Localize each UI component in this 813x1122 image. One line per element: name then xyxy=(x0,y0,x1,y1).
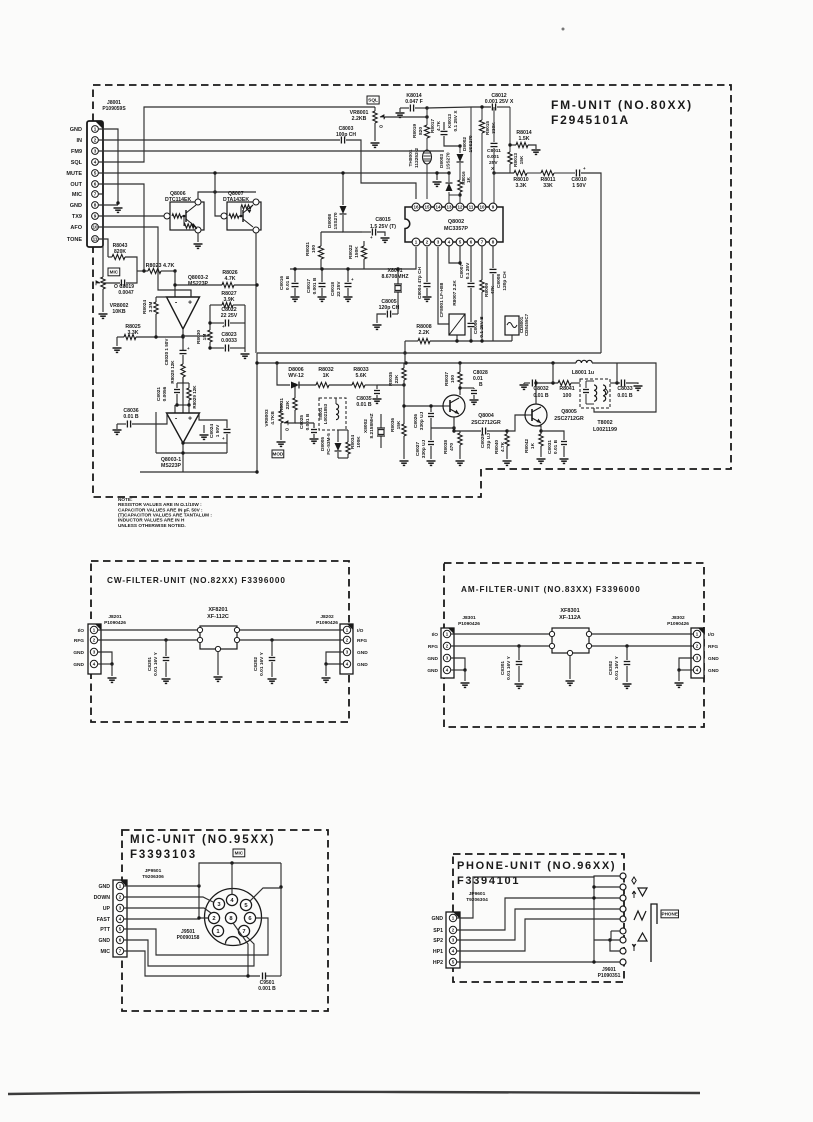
svg-text:4: 4 xyxy=(94,160,97,165)
svg-text:MIC-UNIT (NO.95XX): MIC-UNIT (NO.95XX) xyxy=(130,834,275,846)
wire osc row xyxy=(524,382,530,384)
svg-text:X8002: X8002 xyxy=(363,419,369,433)
svg-text:GND: GND xyxy=(70,203,82,209)
svg-text:MIC: MIC xyxy=(110,270,119,275)
J9501 pin 4 xyxy=(226,894,237,905)
svg-text:0.01 B: 0.01 B xyxy=(123,414,139,420)
J8301 pin 3 GND xyxy=(443,654,450,661)
jack body xyxy=(651,904,657,962)
svg-text:2.2K: 2.2K xyxy=(419,330,430,336)
transformer T8001 xyxy=(319,398,346,430)
svg-text:TONE: TONE xyxy=(67,237,83,243)
J8202 pin 1 I/O xyxy=(343,626,350,633)
wire R8023 node down xyxy=(174,271,176,297)
ground C8017 xyxy=(318,296,327,298)
ground VR8003 xyxy=(277,441,286,443)
wire J9501 pin8 down xyxy=(233,923,248,976)
svg-text:820K: 820K xyxy=(114,249,126,255)
wire AM RFG left xyxy=(451,645,549,647)
wire MIC FAST xyxy=(124,918,199,920)
svg-text:O: O xyxy=(285,427,289,432)
svg-text:R8040: R8040 xyxy=(494,440,500,454)
svg-text:I/O: I/O xyxy=(432,632,439,638)
svg-text:P1090351: P1090351 xyxy=(598,973,621,979)
ground C8035 xyxy=(373,398,382,400)
ground AM left xyxy=(461,682,470,684)
Q8002 pin 2 xyxy=(423,238,431,246)
svg-text:100K: 100K xyxy=(356,436,362,448)
wire J9501 pin4 riser xyxy=(231,863,233,895)
wire TX9 pin9 xyxy=(98,215,167,217)
ground C8031 xyxy=(560,458,569,460)
wire Q8005 collector xyxy=(535,383,537,404)
svg-text:RFG: RFG xyxy=(357,638,367,644)
svg-text:XF-112C: XF-112C xyxy=(207,614,229,620)
svg-text:7: 7 xyxy=(242,929,245,935)
svg-text:D8002: D8002 xyxy=(462,137,468,151)
transistor Q8006 xyxy=(170,202,204,230)
svg-text:2SC2712GR: 2SC2712GR xyxy=(554,416,584,422)
svg-text:Q8002: Q8002 xyxy=(448,219,464,225)
wire MIC GND loop xyxy=(124,886,208,918)
svg-text:J8201: J8201 xyxy=(108,614,122,620)
svg-text:0.1 25V X: 0.1 25V X xyxy=(453,110,459,132)
wire bus lower xyxy=(257,362,576,364)
wire opamp1 out node xyxy=(181,334,184,337)
svg-text:MIC: MIC xyxy=(72,192,82,198)
svg-text:OUT: OUT xyxy=(70,182,82,188)
svg-text:1.5 25V (T): 1.5 25V (T) xyxy=(370,224,396,230)
transistor Q8007 xyxy=(227,202,261,230)
svg-text:R8013: R8013 xyxy=(513,153,519,167)
J8301 pin 2 RFG xyxy=(443,642,450,649)
wire AFO pin10 xyxy=(98,227,191,297)
wire audio bottom xyxy=(140,471,257,473)
svg-text:I/O: I/O xyxy=(78,628,85,634)
svg-text:10KB: 10KB xyxy=(112,309,126,315)
wire CF8001 to bus xyxy=(456,335,458,341)
svg-text:0.0056: 0.0056 xyxy=(162,386,168,401)
wire C8003 to pin16 xyxy=(346,140,416,199)
svg-text:C8024: C8024 xyxy=(209,424,215,438)
filter XF8301 xyxy=(552,628,589,653)
svg-text:L0021853: L0021853 xyxy=(323,403,328,424)
svg-text:C8031: C8031 xyxy=(547,440,553,454)
wire MIC GND6 to pin7 xyxy=(124,936,254,966)
wire T8002 right xyxy=(610,382,620,384)
ground R8014 xyxy=(532,149,541,151)
svg-text:8: 8 xyxy=(94,203,97,208)
svg-text:TH8001: TH8001 xyxy=(408,149,414,166)
svg-text:RFG: RFG xyxy=(708,644,718,650)
svg-text:1: 1 xyxy=(94,127,97,132)
svg-text:33K: 33K xyxy=(543,183,553,189)
svg-text:MS223P: MS223P xyxy=(188,281,208,287)
J8302 pin 2 RFG xyxy=(693,642,700,649)
svg-text:C8021: C8021 xyxy=(156,387,162,401)
svg-text:100p CH: 100p CH xyxy=(336,132,356,138)
J9501 pin 8 xyxy=(225,912,236,923)
svg-text:T9206306: T9206306 xyxy=(142,874,164,880)
label SQL xyxy=(367,96,379,104)
J9501 pin 3 xyxy=(213,898,224,909)
wire opamp1 + up xyxy=(190,290,192,297)
svg-text:0.001 B: 0.001 B xyxy=(312,277,318,294)
wire AM I/O left xyxy=(451,633,549,635)
svg-text:0.001: 0.001 xyxy=(487,154,499,160)
svg-text:GND: GND xyxy=(98,884,110,890)
Q8002 pin 3 xyxy=(434,238,442,246)
svg-text:C8033: C8033 xyxy=(617,386,632,392)
svg-text:R8041: R8041 xyxy=(559,386,574,392)
label MIC boxed xyxy=(233,849,245,857)
svg-text:AM-FILTER-UNIT (NO.83XX) F33: AM-FILTER-UNIT (NO.83XX) F3396000 xyxy=(461,585,641,594)
ground C8016 xyxy=(291,296,300,298)
ground R8025 xyxy=(113,347,122,349)
ground opamp2 xyxy=(203,425,205,433)
wire AM gnd pins right xyxy=(679,658,694,670)
svg-text:C8016: C8016 xyxy=(279,276,285,290)
Q8002 pin 9 xyxy=(489,203,497,211)
ground C8027 xyxy=(427,460,436,462)
wire GND pin1 to ground xyxy=(98,129,118,203)
ground C8201 xyxy=(162,678,171,680)
svg-text:C8004 47p CH: C8004 47p CH xyxy=(417,266,423,299)
ground VR8002 xyxy=(99,313,108,315)
svg-text:R8034: R8034 xyxy=(350,435,356,449)
svg-text:0.001 B: 0.001 B xyxy=(305,413,311,430)
svg-text:100: 100 xyxy=(450,375,456,383)
wire feedback right xyxy=(244,305,246,348)
svg-text:120p CH: 120p CH xyxy=(502,271,508,291)
svg-text:1SS270: 1SS270 xyxy=(446,152,452,169)
wire pin4 down xyxy=(449,246,460,263)
svg-text:0.047 F: 0.047 F xyxy=(405,99,423,105)
scan speck top xyxy=(562,28,565,31)
capacitor C8201 xyxy=(164,638,167,641)
wire x510 down xyxy=(509,107,511,145)
svg-text:SQL: SQL xyxy=(71,160,83,166)
wire MIC PTT to pin6 xyxy=(124,918,268,955)
svg-text:PHONE: PHONE xyxy=(662,912,678,917)
svg-text:4.7K: 4.7K xyxy=(436,120,442,131)
svg-text:D8005: D8005 xyxy=(320,437,326,451)
Q8002 pin 12 xyxy=(456,203,464,211)
svg-text:CD8455C7: CD8455C7 xyxy=(524,313,529,336)
svg-text:1SS270: 1SS270 xyxy=(468,135,474,152)
wire GND pin8 xyxy=(98,204,118,206)
J8201 pin 3 GND xyxy=(90,648,97,655)
svg-text:IN: IN xyxy=(77,138,83,144)
wire CW I/O right xyxy=(240,629,343,631)
svg-text:4.7KB: 4.7KB xyxy=(270,411,276,425)
wire Q8007 emitter down xyxy=(255,233,257,353)
svg-text:R8036: R8036 xyxy=(390,418,396,432)
svg-text:33p UJ: 33p UJ xyxy=(486,433,492,449)
svg-text:1K: 1K xyxy=(530,442,536,449)
svg-text:22 25V: 22 25V xyxy=(336,281,342,297)
svg-text:P1090426: P1090426 xyxy=(316,620,338,626)
svg-text:UNLESS OTHERWISE NOTED.: UNLESS OTHERWISE NOTED. xyxy=(118,523,186,528)
arrow speaker triangle xyxy=(638,888,647,896)
wire MIC right bus xyxy=(280,863,282,976)
ground mid xyxy=(436,173,438,180)
svg-text:13: 13 xyxy=(446,205,452,210)
varactor D8005 xyxy=(337,430,339,442)
svg-text:PHONE-UNIT (NO.96XX): PHONE-UNIT (NO.96XX) xyxy=(457,860,616,872)
arrow lower jack triangle xyxy=(638,933,647,941)
svg-text:+: + xyxy=(583,166,586,171)
capacitor C8003 xyxy=(340,137,342,144)
svg-text:D8008: D8008 xyxy=(327,214,333,228)
svg-text:R8029 12K: R8029 12K xyxy=(192,385,197,409)
svg-text:SQL: SQL xyxy=(368,98,378,104)
svg-text:FC-53M-5: FC-53M-5 xyxy=(326,433,332,455)
svg-text:B: B xyxy=(479,382,483,388)
ground C8036 xyxy=(113,429,122,431)
svg-text:0.001 B: 0.001 B xyxy=(258,986,276,992)
svg-text:100: 100 xyxy=(563,393,572,399)
svg-text:0.01 16V Y: 0.01 16V Y xyxy=(506,655,512,679)
svg-text:6: 6 xyxy=(94,182,97,187)
ground J8001 xyxy=(114,207,123,209)
svg-text:1SS270: 1SS270 xyxy=(333,212,339,229)
svg-text:0.01 B: 0.01 B xyxy=(553,439,559,454)
svg-text:SP2: SP2 xyxy=(433,938,443,944)
svg-text:1M: 1M xyxy=(202,334,208,341)
svg-text:R8017: R8017 xyxy=(430,119,436,133)
svg-text:22K: 22K xyxy=(285,400,291,409)
svg-text:10: 10 xyxy=(479,205,485,210)
svg-text:C8029: C8029 xyxy=(480,434,486,448)
discriminator CD8001 xyxy=(505,316,519,335)
J8201 pin 1 I/O xyxy=(90,626,97,633)
wire contact 951 stub xyxy=(610,940,620,951)
J9501 pin 7 xyxy=(238,925,249,936)
svg-text:VR8003: VR8003 xyxy=(264,409,270,427)
wire J9501 pin5 right xyxy=(250,888,281,901)
svg-text:0.01 16V Y: 0.01 16V Y xyxy=(614,655,620,679)
svg-text:C8027: C8027 xyxy=(415,442,421,456)
MIC-UNIT dashed border xyxy=(122,830,328,1011)
wire SQL pin4 xyxy=(98,107,375,162)
wire CW I/O left xyxy=(98,629,197,631)
Q8002 pin 5 xyxy=(456,238,464,246)
wire MIC UP xyxy=(124,908,211,913)
svg-text:Q8005: Q8005 xyxy=(561,409,577,415)
svg-text:5: 5 xyxy=(94,171,97,176)
capacitor C8006 xyxy=(468,322,475,324)
svg-text:0.01 B: 0.01 B xyxy=(285,275,291,290)
J8302 pin 4 GND xyxy=(693,666,700,673)
svg-text:1K: 1K xyxy=(323,373,330,379)
ground C8015 xyxy=(381,237,390,239)
wire OUT pin6 xyxy=(98,184,144,271)
svg-text:GND: GND xyxy=(427,668,438,674)
ground XF8301 xyxy=(566,680,575,682)
svg-text:GND: GND xyxy=(73,650,84,656)
wire opamp2 output down xyxy=(182,443,184,472)
wire MIC MIC to C9501 xyxy=(124,951,260,976)
svg-text:+: + xyxy=(187,346,190,351)
ground R8040 xyxy=(503,460,512,462)
svg-text:R8022: R8022 xyxy=(348,245,354,259)
svg-text:MUTE: MUTE xyxy=(66,171,82,177)
svg-text:R8038: R8038 xyxy=(443,440,449,454)
svg-text:R8028 12K: R8028 12K xyxy=(170,360,175,384)
svg-text:D8003: D8003 xyxy=(439,154,445,168)
label MIC small xyxy=(108,268,120,276)
filter CF8001 xyxy=(449,314,465,335)
ground C8301 xyxy=(515,683,524,685)
Q8002 pin 16 xyxy=(412,203,420,211)
svg-text:C8025: C8025 xyxy=(299,415,305,429)
svg-text:I/O: I/O xyxy=(357,628,364,634)
Q8002 pin 10 xyxy=(478,203,486,211)
page bottom rule xyxy=(8,1092,700,1094)
arrow mid jack wave xyxy=(634,911,646,920)
transistor Q8005 xyxy=(525,404,547,426)
svg-text:+: + xyxy=(222,324,225,329)
svg-text:+: + xyxy=(188,416,192,423)
Q8002 pin 7 xyxy=(478,238,486,246)
J8202 pin 2 RFG xyxy=(343,636,350,643)
svg-text:0.01 B: 0.01 B xyxy=(356,402,372,408)
svg-text:PTT: PTT xyxy=(100,927,111,933)
svg-text:0.01 B: 0.01 B xyxy=(533,393,549,399)
wire pin2 down xyxy=(437,247,439,308)
svg-text:JP9501: JP9501 xyxy=(145,868,162,874)
ground C8028 xyxy=(470,399,479,401)
IC Q8002 MC3357P xyxy=(405,207,503,242)
CW-FILTER-UNIT dashed border xyxy=(91,561,349,722)
svg-text:MIC: MIC xyxy=(100,949,110,955)
wire MIC pin7 xyxy=(98,194,103,277)
J9501 pin 1 xyxy=(212,925,223,936)
connector J8301 xyxy=(441,628,454,678)
svg-text:HP2: HP2 xyxy=(433,960,443,966)
svg-text:J8302: J8302 xyxy=(671,615,685,621)
svg-text:GND: GND xyxy=(70,127,82,133)
capacitor C8202 xyxy=(270,638,273,641)
wire pin5 down xyxy=(459,246,461,263)
svg-text:C8302: C8302 xyxy=(608,661,614,675)
connector J8001 xyxy=(87,121,103,247)
Q8002 pin 15 xyxy=(423,203,431,211)
ground R8038 xyxy=(456,460,465,462)
svg-text:RFG: RFG xyxy=(428,644,438,650)
svg-text:22 25V: 22 25V xyxy=(221,313,238,319)
wire Q8004 emitter xyxy=(453,417,455,431)
wire SP2 to contact 909 xyxy=(457,909,620,940)
svg-text:CW-FILTER-UNIT (NO.82XX) F33: CW-FILTER-UNIT (NO.82XX) F3396000 xyxy=(107,576,286,585)
J9501 pin 6 xyxy=(244,912,255,923)
Q8002 pin 13 xyxy=(445,203,453,211)
svg-text:MOD: MOD xyxy=(273,452,284,457)
ground R8042 xyxy=(537,458,546,460)
svg-text:0.1 25V: 0.1 25V xyxy=(465,262,471,279)
svg-text:C8015: C8015 xyxy=(375,217,390,223)
svg-text:3.9K: 3.9K xyxy=(224,297,235,303)
ground K8014 xyxy=(396,112,405,114)
PHONE-UNIT dashed border xyxy=(453,854,624,982)
wire AM I/O right xyxy=(592,633,694,635)
svg-text:DOWN: DOWN xyxy=(94,895,111,901)
svg-text:C8008: C8008 xyxy=(496,274,502,288)
ground AM right xyxy=(675,682,684,684)
svg-text:112252-2: 112252-2 xyxy=(414,148,420,168)
connector J8201 xyxy=(88,624,101,674)
svg-text:RFG: RFG xyxy=(74,638,84,644)
connector J8302 xyxy=(691,628,704,678)
svg-text:15K: 15K xyxy=(519,155,525,164)
svg-text:P1090426: P1090426 xyxy=(667,621,689,627)
svg-text:1 50V: 1 50V xyxy=(572,183,586,189)
wire SP1 to contact 898 xyxy=(457,898,620,930)
wire to Q8005 base xyxy=(507,415,525,431)
svg-text:R8031: R8031 xyxy=(279,398,285,412)
svg-text:TX9: TX9 xyxy=(72,214,82,220)
svg-text:7: 7 xyxy=(94,192,97,197)
svg-text:C8017: C8017 xyxy=(306,279,312,293)
svg-text:+: + xyxy=(351,277,354,282)
svg-text:GND: GND xyxy=(708,668,719,674)
svg-text:3: 3 xyxy=(94,149,97,154)
svg-text:C8301: C8301 xyxy=(500,661,506,675)
svg-text:F2945101A: F2945101A xyxy=(551,113,630,127)
svg-text:+: + xyxy=(370,235,373,240)
svg-text:T9206304: T9206304 xyxy=(466,897,488,903)
svg-text:GND: GND xyxy=(431,916,443,922)
ground C8005 xyxy=(373,324,382,326)
svg-text:5.6K: 5.6K xyxy=(356,373,367,379)
svg-text:GND: GND xyxy=(357,650,368,656)
svg-text:120p CH: 120p CH xyxy=(379,305,400,311)
svg-text:I/O: I/O xyxy=(708,632,715,638)
svg-text:R8035: R8035 xyxy=(388,372,394,386)
J8301 pin 4 GND xyxy=(443,666,450,673)
svg-text:P1090426: P1090426 xyxy=(458,621,480,627)
svg-text:330p UJ: 330p UJ xyxy=(421,439,427,458)
svg-text:+: + xyxy=(222,436,225,441)
AM-FILTER-UNIT dashed border xyxy=(444,563,704,727)
svg-text:0.1 25V B: 0.1 25V B xyxy=(479,316,485,338)
svg-text:UP: UP xyxy=(103,906,111,912)
svg-text:0.0033: 0.0033 xyxy=(221,338,237,344)
svg-text:L0021199: L0021199 xyxy=(593,427,617,433)
svg-text:GND: GND xyxy=(98,938,110,944)
svg-text:2: 2 xyxy=(94,138,97,143)
svg-text:820: 820 xyxy=(418,127,424,135)
svg-text:P109059S: P109059S xyxy=(102,106,126,112)
svg-text:R8024: R8024 xyxy=(142,300,148,314)
Q8002 pin 8 xyxy=(489,238,497,246)
ground C8025 xyxy=(310,438,319,440)
svg-text:8.2158MHZ: 8.2158MHZ xyxy=(369,413,375,438)
svg-text:JP9601: JP9601 xyxy=(469,891,486,897)
svg-text:R8019: R8019 xyxy=(412,124,418,138)
op-amp Q8003-1 xyxy=(167,413,200,443)
wire node to Q8007 base xyxy=(215,192,221,216)
wire pin1 down xyxy=(290,247,416,269)
wire AM gnd pins left xyxy=(451,658,465,670)
svg-text:MIC: MIC xyxy=(235,851,244,856)
wire CW RFG right xyxy=(240,639,343,641)
svg-text:XF8301: XF8301 xyxy=(560,608,579,614)
svg-text:F3393103: F3393103 xyxy=(130,849,197,861)
wire CD8001 to bus xyxy=(511,335,513,341)
svg-text:11: 11 xyxy=(93,237,98,242)
